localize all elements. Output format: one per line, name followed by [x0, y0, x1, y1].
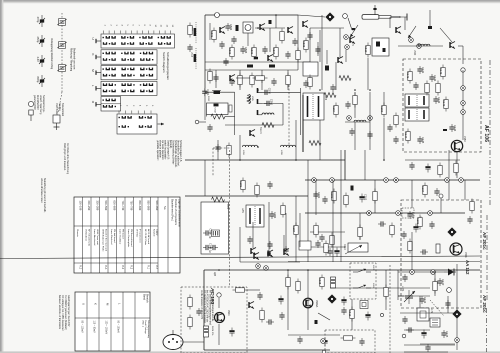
terminal big [447, 288, 452, 293]
coil L266b [243, 145, 258, 147]
coil L268 [324, 93, 336, 98]
resistor R512 [280, 29, 284, 44]
label drive note [55, 103, 64, 117]
junction [218, 269, 220, 271]
capacitor C271 [393, 136, 398, 144]
svg-text:Schiebschieb. bedorzverb.: Schiebschieb. bedorzverb. [174, 140, 177, 168]
junction [257, 146, 259, 148]
striped resistor R609 [331, 277, 336, 288]
table2 grid lines [75, 292, 150, 351]
svg-text:R143: R143 [442, 100, 446, 107]
svg-text:L171: L171 [401, 286, 404, 292]
svg-text:PL2: PL2 [121, 265, 123, 270]
svg-text:R267: R267 [332, 106, 336, 113]
svg-text:C201: C201 [411, 212, 415, 219]
resistor R144 [404, 129, 410, 144]
resistor R283 [281, 203, 285, 218]
coil 7mA [262, 123, 274, 128]
wire [234, 92, 236, 135]
wire [255, 27, 285, 29]
switch contact S1a [353, 269, 371, 272]
wire [397, 270, 399, 300]
svg-text:Oszill. Voltage: Oszill. Voltage [144, 320, 147, 335]
svg-text:FM Bereich board: FM Bereich board [130, 229, 133, 247]
wire [225, 116, 235, 118]
capacitor C265 [303, 80, 308, 88]
terminal [195, 120, 199, 124]
box filter [372, 38, 389, 56]
svg-text:C301: C301 [317, 192, 321, 199]
electrolytic C174 [421, 330, 426, 339]
wire [215, 70, 217, 88]
capacitor C170 [437, 278, 445, 286]
switch wafer lead L [91, 85, 101, 91]
pin bar [258, 88, 263, 93]
svg-text:Lume Misch-teil: Lume Misch-teil [110, 229, 113, 245]
transistor V262 [250, 130, 255, 137]
svg-text:L281: L281 [241, 208, 243, 214]
svg-text:A|B: A|B [213, 272, 216, 276]
trimmer capacitor C612 [57, 42, 67, 49]
transistor V506 [396, 27, 401, 34]
svg-text:Chassis: Chassis [76, 229, 78, 238]
wire [359, 213, 361, 240]
wire rail y270 [204, 269, 480, 271]
svg-text:4-60: 4-60 [36, 57, 40, 63]
junction [313, 179, 315, 181]
electrolytic C306 [413, 224, 418, 233]
resistor R306 [314, 223, 318, 238]
svg-text:Lume-Gartenplatte: Lume-Gartenplatte [127, 229, 130, 248]
svg-text:C502: C502 [229, 24, 233, 31]
svg-text:„portable operation”.: „portable operation”. [156, 140, 159, 161]
trimmer capacitor C613 [57, 65, 67, 72]
capacitor C513 [259, 75, 264, 83]
variable capacitor C171 [404, 290, 415, 304]
test point [312, 178, 317, 183]
svg-text:V201: V201 [464, 252, 467, 258]
wire rail y261 [288, 261, 480, 263]
resistor R204 [421, 183, 427, 198]
electrolytic C602 [229, 328, 234, 337]
coil in filter 2 [383, 48, 386, 52]
capacitor C516 [231, 36, 236, 44]
box R171 [430, 318, 440, 327]
wire left rail FM [204, 15, 206, 88]
svg-text:U: U [82, 303, 86, 305]
transistor V502 [288, 27, 293, 34]
svg-text:C143: C143 [437, 97, 441, 104]
wire [367, 58, 369, 90]
svg-text:C576: C576 [267, 88, 271, 95]
dashed box audio driver [181, 287, 247, 353]
svg-text:Umschalter für außer-bel.: Umschalter für außer-bel. [176, 140, 179, 167]
svg-text:AC 193: AC 193 [209, 288, 215, 305]
transistor V501 [260, 24, 265, 31]
transistor V282 [251, 248, 256, 255]
wire [307, 270, 309, 330]
wire IF rail a [205, 91, 235, 93]
resistor R268 [353, 93, 357, 108]
wire [239, 135, 241, 160]
IF transformer L266 [303, 93, 324, 120]
dashed link to drive [58, 92, 62, 113]
svg-text:95 – 115mV: 95 – 115mV [81, 321, 83, 334]
svg-text:ZF-Filter: ZF-Filter [136, 229, 139, 238]
wire [275, 15, 277, 28]
capacitor C308 [327, 248, 332, 256]
box C643 [360, 301, 368, 309]
wire [411, 232, 413, 270]
electrolytic C303 [359, 194, 367, 203]
table position-of-components frame [74, 197, 180, 273]
svg-text:R141: R141 [406, 72, 410, 79]
capacitor C203 [420, 249, 428, 254]
capacitor C305 [401, 231, 406, 239]
svg-text:R608: R608 [318, 278, 322, 285]
svg-text:PL2: PL2 [130, 265, 132, 270]
wire [319, 30, 321, 62]
wire [239, 70, 241, 90]
coil L201 [436, 244, 440, 253]
test point [409, 38, 414, 43]
junction [275, 14, 277, 16]
wire [240, 261, 300, 263]
junction [257, 27, 259, 29]
resistor R262b [253, 76, 268, 80]
wire [309, 28, 311, 62]
connector blob2 [428, 26, 432, 29]
wire [447, 296, 449, 313]
resistor R142 [439, 65, 445, 80]
dashed small box [402, 208, 414, 218]
resistor R607 [296, 279, 300, 294]
wire [404, 344, 455, 346]
transistor V604 AC193 [215, 313, 225, 323]
capacitor C261 [202, 88, 210, 96]
svg-text:Schaltergruppen A,B,: Schaltergruppen A,B, [179, 140, 182, 162]
wire rail y288 [330, 287, 430, 289]
transistor V505 [338, 57, 343, 64]
resistor R608 [318, 275, 324, 290]
svg-text:700–749: 700–749 [121, 201, 124, 211]
electrolytic C635 [341, 297, 346, 306]
coil in filter [376, 42, 380, 47]
svg-text:L617: L617 [372, 265, 374, 271]
svg-text:470p: 470p [36, 17, 40, 23]
capacitor C508 [262, 46, 267, 54]
svg-text:Lume Abschneid: Lume Abschneid [93, 229, 96, 246]
junction [383, 159, 385, 161]
coil L502 [247, 65, 253, 68]
svg-text:C508 1µ: C508 1µ [208, 243, 212, 253]
capacitor C510 [285, 51, 290, 59]
svg-text:Verkopplung Reinheit richtig: Verkopplung Reinheit richtig [50, 38, 53, 70]
svg-text:C506: C506 [244, 47, 248, 54]
svg-text:IF transformer: IF transformer [139, 229, 142, 243]
trimmer capacitor C603 [36, 55, 45, 67]
svg-text:C170: C170 [441, 279, 445, 286]
svg-text:800p: 800p [36, 77, 40, 83]
wire [247, 289, 260, 291]
svg-text:L266: L266 [242, 150, 244, 156]
svg-text:between electrode of transisto: between electrode of transistors [58, 295, 61, 330]
scan edge left [0, 0, 2, 353]
test point [367, 211, 372, 216]
wire [429, 10, 431, 26]
wire [295, 196, 297, 262]
wire mid rail [205, 61, 310, 63]
capacitor C143 [433, 96, 441, 104]
svg-text:L830: L830 [226, 204, 228, 210]
wire top rail FM [205, 14, 298, 16]
svg-text:V150: V150 [463, 136, 466, 142]
capacitor C201 [407, 211, 415, 219]
wire [448, 180, 450, 200]
transistor V140 [450, 42, 455, 49]
resistor R286 [324, 241, 328, 256]
wire [206, 115, 208, 117]
resistor R281 [239, 178, 245, 193]
capacitor C636 [341, 307, 346, 315]
svg-text:R505: R505 [302, 41, 306, 48]
transistor V508 [268, 55, 273, 62]
wire [204, 160, 206, 196]
table2 body text [81, 303, 122, 335]
svg-text:R604 37k: R604 37k [211, 326, 213, 336]
terminal [322, 350, 326, 353]
text block switch groups note [156, 140, 182, 168]
volume pot [345, 243, 368, 254]
resistor R613 [384, 285, 388, 300]
capacitor C179 [445, 300, 450, 308]
aux switch pin numbers [119, 105, 153, 114]
dashed link tuning gang [61, 13, 63, 92]
wire [300, 88, 302, 135]
svg-text:PL7: PL7 [155, 265, 157, 270]
svg-text:K: K [91, 54, 95, 56]
wire [297, 15, 299, 70]
wire [326, 50, 328, 64]
box L172 [417, 308, 429, 321]
table oscillator-voltage frame [75, 292, 150, 351]
svg-text:R262: R262 [207, 96, 209, 102]
coil L540 [418, 44, 430, 46]
capacitor C609 [359, 338, 364, 346]
wire [315, 180, 317, 215]
svg-text:L513: L513 [190, 52, 192, 58]
junction [369, 89, 371, 91]
trimmer capacitor C601 [36, 15, 45, 27]
scan edge top [0, 0, 500, 2]
coil L830 [212, 197, 225, 202]
coil L507 [325, 66, 329, 71]
capacitor C266 [215, 144, 220, 152]
resistor R603 [233, 288, 248, 292]
wire [348, 18, 352, 30]
svg-text:900–999: 900–999 [155, 201, 158, 211]
box L263 [207, 103, 229, 115]
svg-text:L266: L266 [324, 95, 326, 101]
coil L506 [254, 57, 258, 60]
capacitor C603 [257, 292, 262, 300]
dotted coil L513 [194, 48, 197, 70]
wire [287, 270, 289, 330]
wire [345, 50, 347, 62]
capacitor C521 [330, 84, 335, 92]
resistor R202 [408, 239, 412, 254]
capacitor C286 [283, 246, 288, 254]
resistor R605 [260, 308, 264, 323]
switch wafer lead O [91, 101, 101, 107]
dashed box tone filter [325, 330, 375, 353]
wire diagonal [318, 313, 330, 320]
dashed boundary x289 [288, 85, 290, 148]
terminal stub top [373, 5, 376, 15]
transistor V150 [451, 140, 462, 151]
capacitor C144 [449, 124, 457, 132]
wire to AF106 [398, 45, 443, 47]
junction [395, 179, 397, 181]
electrolytic C605 [278, 296, 283, 305]
junction [456, 312, 458, 314]
transistor V201 [450, 243, 462, 255]
resistor R305 [330, 233, 334, 248]
svg-text:C175: C175 [445, 331, 449, 338]
resistor R516 [286, 73, 290, 88]
wire [262, 102, 283, 104]
coil L585 zig [247, 95, 250, 103]
coil L301 [351, 186, 354, 191]
resistor R513 [296, 48, 300, 63]
svg-text:C145: C145 [421, 137, 425, 144]
capacitor C272 [349, 128, 354, 136]
dashed module boundary v2 [229, 150, 231, 287]
capacitor C506 [203, 229, 212, 239]
resistor R514 [208, 69, 212, 84]
svg-text:betrieb).: betrieb). [169, 140, 172, 149]
capacitor C283 [269, 211, 277, 219]
resistor R611 [341, 336, 356, 340]
svg-text:Netzteil: Netzteil [153, 229, 156, 237]
wire [217, 140, 219, 160]
svg-text:FM dial board: FM dial board [113, 229, 116, 243]
resistor R146 [454, 161, 458, 176]
test point [431, 270, 436, 275]
wire to speaker [183, 341, 204, 343]
capacitor C302 [322, 196, 327, 204]
thermistor [315, 320, 318, 324]
resistor R141 [406, 69, 412, 84]
capacitor C178 [402, 316, 407, 324]
wire [464, 180, 466, 200]
resistor R147 [425, 81, 429, 96]
wire [310, 231, 345, 233]
resistor R284 [292, 223, 298, 238]
coil L264 [211, 114, 225, 119]
svg-text:UKW-Baukreuzt. Platte: UKW-Baukreuzt. Platte [102, 229, 105, 252]
test point [417, 44, 422, 49]
capacitor C512 [213, 74, 218, 82]
resistor R302 [344, 193, 348, 208]
capacitor C262 [207, 124, 212, 132]
svg-text:K: K [94, 303, 98, 305]
switch row K contacts [101, 50, 157, 64]
capacitor C269 [367, 131, 372, 139]
svg-text:No.: No. [163, 206, 167, 210]
transistor V504 [350, 37, 355, 44]
svg-text:switch for portable-: switch for portable- [164, 140, 167, 160]
svg-text:R204: R204 [421, 186, 425, 193]
diode arrow [430, 300, 444, 316]
test point [428, 211, 433, 216]
resistor R506 [238, 73, 242, 88]
svg-text:130 – 150mV: 130 – 150mV [105, 321, 107, 335]
wire [321, 15, 323, 90]
capacitor C520 [271, 78, 276, 86]
svg-text:PLA: PLA [104, 265, 107, 270]
capacitor C517 [292, 38, 297, 46]
svg-text:L540: L540 [413, 50, 415, 56]
svg-text:AF 201c: AF 201c [482, 232, 487, 250]
transistor V503 [303, 21, 308, 28]
svg-text:R612: R612 [348, 310, 352, 317]
svg-text:R284: R284 [292, 226, 296, 233]
connector diamond X601 [327, 294, 336, 303]
capacitor C141 [417, 66, 425, 74]
wire [411, 180, 413, 208]
test point [256, 264, 261, 269]
svg-text:90 – 100mV: 90 – 100mV [117, 321, 119, 334]
resistor R301 [330, 189, 336, 204]
resistor R269 [380, 103, 386, 118]
svg-text:bei AF200(C)/AA112(C)/VM wie: bei AF200(C)/AA112(C)/VM wie [206, 290, 209, 323]
capacitor C601 [196, 308, 201, 316]
resistor R502 [228, 45, 234, 60]
wire right rail [456, 264, 458, 350]
test point M2 [461, 101, 466, 106]
wire [351, 299, 353, 330]
test point [396, 211, 401, 216]
wire [319, 120, 321, 160]
test point [455, 338, 460, 343]
wire [310, 27, 344, 29]
svg-text:300–399: 300–399 [96, 201, 99, 211]
coil L501 [236, 25, 239, 31]
wire [218, 298, 220, 308]
resistor R606 [286, 275, 290, 290]
capacitor C607 [297, 336, 302, 344]
pin bar [258, 99, 263, 104]
svg-text:L286: L286 [280, 150, 282, 156]
wire [383, 92, 385, 105]
wire [205, 69, 298, 71]
wire [354, 122, 356, 150]
wire bottom rail [204, 349, 330, 351]
capacitor C281 [267, 181, 272, 189]
capacitor C576 [262, 88, 271, 95]
speaker [163, 330, 183, 350]
wire [209, 23, 211, 40]
svg-text:Schwingspannung: Schwingspannung [147, 320, 149, 339]
svg-text:PL3: PL3 [79, 265, 81, 270]
wire [340, 150, 342, 262]
wire [385, 270, 387, 310]
svg-text:R144: R144 [404, 132, 408, 139]
wire below module [405, 159, 460, 161]
svg-text:R269: R269 [380, 106, 384, 113]
wire [419, 296, 421, 308]
